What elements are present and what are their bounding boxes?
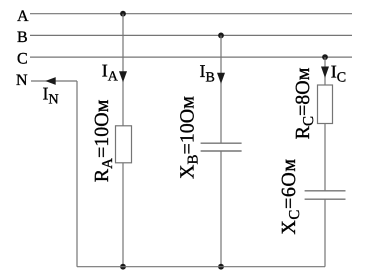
svg-text:C: C	[17, 50, 28, 67]
capacitor XB	[201, 143, 242, 151]
svg-text:XB=10Ом: XB=10Ом	[177, 96, 202, 179]
capacitor XC	[305, 191, 346, 199]
resistor RA	[116, 126, 132, 163]
svg-text:A: A	[17, 8, 29, 25]
bus wire B	[30, 34, 352, 36]
wire branch C middle	[324, 124, 326, 191]
wire branch A upper	[122, 14, 124, 126]
neutral wire N horizontal	[31, 80, 77, 82]
junction node on bus C	[322, 54, 328, 60]
junction node on bus A	[120, 11, 126, 17]
wire branch C upper	[324, 57, 326, 85]
svg-text:RA=10Ом: RA=10Ом	[91, 99, 116, 182]
svg-text:XC=6Ом: XC=6Ом	[278, 158, 303, 234]
current arrow IA	[119, 71, 127, 82]
wire branch B lower	[220, 151, 222, 267]
svg-text:N: N	[16, 72, 28, 89]
bus wire C	[30, 56, 352, 58]
current arrow IN	[45, 77, 55, 85]
current arrow IC	[321, 67, 329, 78]
junction node B bottom	[218, 264, 224, 270]
bus wire A	[30, 13, 352, 15]
wire branch C lower	[324, 199, 326, 267]
bottom rail wire	[77, 266, 325, 268]
wire branch A lower	[122, 163, 124, 267]
junction node on bus B	[218, 33, 224, 39]
wire branch B upper	[220, 35, 222, 143]
svg-text:RC=8Ом: RC=8Ом	[292, 67, 317, 139]
neutral wire vertical	[76, 81, 78, 267]
svg-text:B: B	[17, 29, 28, 46]
junction node A bottom	[120, 264, 126, 270]
resistor RC	[318, 85, 333, 124]
current arrow IB	[217, 73, 225, 84]
